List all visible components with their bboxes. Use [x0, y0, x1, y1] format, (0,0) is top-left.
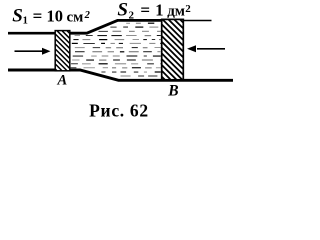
svg-text:2: 2	[84, 10, 91, 21]
svg-text:10: 10	[47, 6, 64, 25]
svg-text:A: A	[57, 73, 68, 89]
svg-text:1: 1	[23, 16, 28, 27]
svg-text:S: S	[117, 0, 128, 21]
svg-text:2: 2	[185, 3, 191, 15]
svg-text:=: =	[33, 6, 43, 25]
svg-text:2: 2	[129, 10, 135, 22]
svg-text:=: =	[140, 1, 150, 20]
svg-text:Рис. 62: Рис. 62	[89, 101, 149, 121]
svg-text:S: S	[12, 5, 23, 26]
svg-text:дм: дм	[167, 4, 185, 20]
svg-text:B: B	[167, 82, 178, 99]
svg-text:см: см	[67, 9, 84, 25]
svg-text:1: 1	[155, 1, 163, 20]
